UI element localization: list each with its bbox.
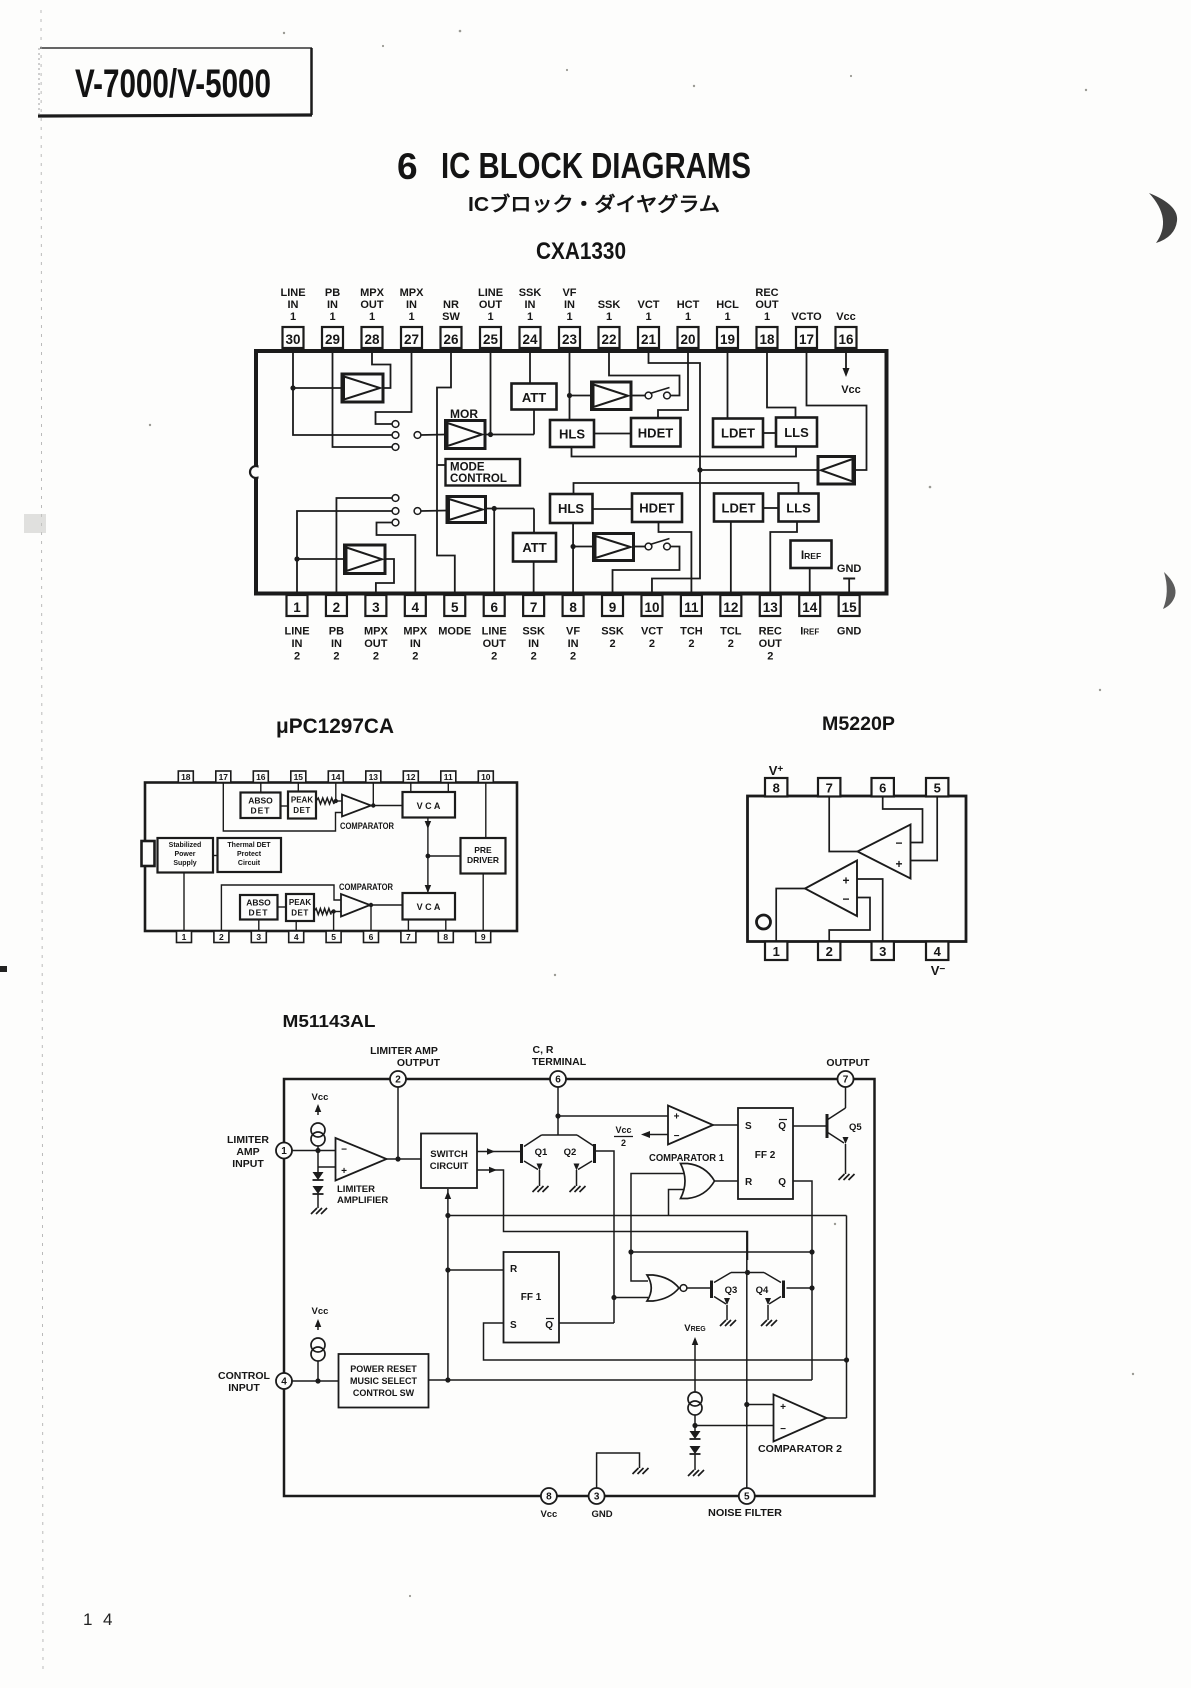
svg-text:3: 3 bbox=[879, 944, 886, 959]
svg-text:8: 8 bbox=[443, 932, 448, 942]
wire ABSO1-PEAK1 bbox=[281, 805, 289, 807]
svg-text:Q3: Q3 bbox=[725, 1285, 738, 1296]
uPC1297CA pin 16 bbox=[253, 771, 268, 783]
amplifier bbox=[594, 534, 634, 561]
edge mark left bbox=[0, 966, 7, 972]
svg-text:−: − bbox=[341, 1145, 347, 1156]
CXA1330 pin 27 (MPX IN 1) bbox=[400, 287, 425, 348]
svg-text:+: + bbox=[341, 1166, 347, 1177]
svg-text:1: 1 bbox=[329, 311, 335, 323]
svg-text:NR: NR bbox=[443, 299, 459, 311]
limiter amplifier triangle bbox=[336, 1138, 387, 1181]
terminal 1 LIMITER AMP INPUT bbox=[276, 1143, 292, 1159]
svg-text:Protect: Protect bbox=[237, 851, 262, 858]
svg-text:19: 19 bbox=[720, 332, 735, 347]
CXA1330 pin 22 (SSK 1) bbox=[598, 299, 621, 348]
svg-text:HCL: HCL bbox=[716, 299, 739, 311]
svg-text:R: R bbox=[510, 1264, 518, 1275]
Vcc arrow pin16 bbox=[841, 351, 861, 396]
svg-text:FF 1: FF 1 bbox=[521, 1292, 542, 1303]
wire switch to MOR amp bbox=[421, 434, 446, 437]
amplifier bbox=[447, 497, 486, 523]
svg-text:1: 1 bbox=[645, 311, 651, 323]
svg-text:OUT: OUT bbox=[755, 299, 779, 311]
CXA1330 pin 8 bbox=[563, 595, 584, 663]
svg-text:MPX: MPX bbox=[364, 626, 389, 638]
M5220P pin 2 bbox=[818, 942, 840, 961]
svg-text:MPX: MPX bbox=[400, 287, 425, 299]
CXA1330 pin 26 (NR SW) bbox=[441, 299, 462, 348]
Stabilized Power Supply box bbox=[158, 838, 214, 873]
wire SPS-Thermal bbox=[213, 855, 218, 857]
svg-text:OUT: OUT bbox=[364, 638, 388, 650]
svg-text:8: 8 bbox=[569, 600, 577, 615]
svg-text:2: 2 bbox=[531, 651, 537, 663]
svg-text:LINE: LINE bbox=[284, 626, 309, 638]
svg-text:HDET: HDET bbox=[638, 426, 673, 441]
svg-text:15: 15 bbox=[842, 600, 858, 615]
POWER RESET MUSIC SELECT CONTROL SW box bbox=[339, 1354, 429, 1408]
svg-text:REC: REC bbox=[755, 287, 778, 299]
svg-text:13: 13 bbox=[763, 600, 779, 615]
CXA1330 pin 10 bbox=[641, 595, 663, 650]
uPC1297CA pin 12 bbox=[403, 771, 418, 783]
svg-text:12: 12 bbox=[406, 772, 416, 782]
svg-text:IN: IN bbox=[564, 299, 575, 311]
svg-text:IN: IN bbox=[406, 299, 417, 311]
svg-text:OUT: OUT bbox=[483, 638, 507, 650]
wire op-amp B inverting input to pin2 bbox=[829, 898, 870, 942]
svg-text:1: 1 bbox=[293, 600, 301, 615]
svg-text:PRE: PRE bbox=[474, 845, 492, 855]
svg-text:12: 12 bbox=[723, 600, 738, 615]
loop wire pin2 comparator2 bbox=[221, 885, 341, 931]
svg-text:M51143AL: M51143AL bbox=[283, 1011, 376, 1031]
COMPARATOR 1 triangle bbox=[668, 1106, 713, 1145]
wire comparator2 out to OR input (h1) bbox=[448, 1215, 847, 1217]
COMPARATOR 2 label bbox=[758, 1444, 842, 1455]
PRE DRIVER box bbox=[461, 838, 506, 874]
svg-text:1: 1 bbox=[369, 311, 375, 323]
svg-text:VCT: VCT bbox=[638, 299, 660, 311]
amplifier bbox=[592, 382, 632, 410]
FF 2 box bbox=[738, 1108, 793, 1199]
svg-text:INPUT: INPUT bbox=[232, 1158, 264, 1170]
svg-text:6: 6 bbox=[879, 781, 886, 796]
VCA box ch2 bbox=[403, 893, 456, 920]
wire SPS to pin1 bbox=[183, 873, 185, 932]
wire HLS1-HDET1 bbox=[594, 433, 631, 435]
wire comparator2 output up bbox=[827, 1216, 847, 1419]
PEAK DET box ch2 bbox=[286, 894, 314, 921]
wire pin5 to comparator2 input bbox=[331, 909, 341, 931]
amplifier bbox=[818, 457, 855, 485]
svg-text:2: 2 bbox=[728, 638, 734, 650]
wire pin2 to switch contact bbox=[336, 498, 392, 595]
svg-text:1: 1 bbox=[83, 1610, 92, 1629]
wire comparator2 out pin6 VCA2 bbox=[369, 903, 403, 931]
terminal 4 CONTROL INPUT bbox=[276, 1373, 292, 1389]
VCA box ch1 bbox=[403, 792, 456, 818]
CXA1330 pin 12 bbox=[720, 595, 742, 650]
svg-text:IN: IN bbox=[288, 299, 299, 311]
svg-text:4: 4 bbox=[934, 944, 942, 959]
CXA1330 pin 18 (REC OUT 1) bbox=[755, 287, 779, 348]
uPC1297CA pin 8 bbox=[438, 931, 453, 943]
ABSO DET box ch2 bbox=[240, 895, 278, 920]
COMPARATOR label ch1 bbox=[340, 821, 394, 831]
svg-text:Stabilized: Stabilized bbox=[169, 842, 202, 849]
svg-text:COMPARATOR: COMPARATOR bbox=[340, 821, 394, 831]
uPC1297CA pin 15 bbox=[291, 771, 306, 783]
wire pin18 to LLS1 top bbox=[767, 351, 796, 418]
svg-text:6: 6 bbox=[555, 1075, 561, 1086]
svg-text:OUT: OUT bbox=[360, 299, 384, 311]
svg-text:23: 23 bbox=[562, 332, 578, 347]
svg-text:OUTPUT: OUTPUT bbox=[397, 1057, 441, 1069]
svg-text:CONTROL: CONTROL bbox=[450, 473, 507, 485]
svg-text:10: 10 bbox=[481, 772, 491, 782]
Vcc/2 reference arrow bbox=[614, 1125, 668, 1148]
uPC1297CA pin 1 bbox=[177, 931, 192, 943]
wire HDET2 to pin11 bbox=[659, 522, 692, 595]
NOR gate bbox=[647, 1275, 687, 1301]
terminal 5 NOISE FILTER bbox=[739, 1488, 755, 1504]
svg-text:+: + bbox=[895, 857, 902, 871]
svg-text:1: 1 bbox=[773, 944, 780, 959]
svg-text:Vcc: Vcc bbox=[312, 1092, 329, 1103]
control input bus terminal4 bbox=[292, 1378, 812, 1383]
CXA1330 pin 16 (Vcc) bbox=[836, 311, 857, 348]
svg-text:ABSO: ABSO bbox=[246, 898, 271, 908]
GND hook terminal3 bbox=[597, 1453, 649, 1488]
CXA1330 pin 28 (MPX OUT 1) bbox=[360, 287, 385, 348]
svg-text:18: 18 bbox=[181, 772, 191, 782]
svg-text:DET: DET bbox=[249, 908, 269, 918]
svg-text:2: 2 bbox=[688, 638, 694, 650]
wire ABSO2-PEAK2 bbox=[278, 906, 287, 908]
svg-text:27: 27 bbox=[404, 332, 419, 347]
scan crescent right lower bbox=[1163, 572, 1176, 609]
svg-text:LLS: LLS bbox=[784, 425, 809, 440]
svg-text:2: 2 bbox=[649, 638, 655, 650]
svg-text:1: 1 bbox=[606, 311, 612, 323]
svg-text:ICブロック・ダイヤグラム: ICブロック・ダイヤグラム bbox=[468, 192, 720, 216]
wire pin8 to amp4 and HLS2 bbox=[570, 523, 593, 595]
svg-text:16: 16 bbox=[256, 772, 266, 782]
svg-text:20: 20 bbox=[680, 332, 695, 347]
LDET box ch1 bbox=[713, 419, 763, 448]
wire pin24 to ATT1 bbox=[529, 351, 531, 384]
wire pin26 NR SW to MODE CONTROL and pin5 bbox=[437, 351, 455, 595]
GND symbol pin15 bbox=[837, 563, 862, 595]
svg-text:Supply: Supply bbox=[173, 860, 196, 867]
svg-text:SSK: SSK bbox=[598, 299, 621, 311]
amplifier bbox=[446, 421, 486, 449]
wire terminal1 to limiter amp bbox=[292, 1151, 336, 1168]
wire Vreg to comparator2 inverting input bbox=[695, 1425, 774, 1427]
CXA1330 pin 25 (LINE OUT 1) bbox=[478, 287, 503, 348]
svg-text:25: 25 bbox=[483, 332, 499, 347]
wire limiter out to switch circuit and terminal2 bbox=[387, 1087, 422, 1162]
ABSO DET box ch1 bbox=[241, 793, 281, 819]
svg-text:IN: IN bbox=[327, 299, 338, 311]
wire OR out to FF2 R bbox=[715, 1180, 739, 1182]
switch circuit bottom control line bbox=[445, 1189, 452, 1383]
svg-text:21: 21 bbox=[641, 332, 657, 347]
wire Q5 collector to terminal7 bbox=[845, 1087, 847, 1108]
svg-text:28: 28 bbox=[364, 332, 380, 347]
svg-text:COMPARATOR: COMPARATOR bbox=[339, 882, 393, 892]
uPC1297CA pin 14 bbox=[328, 771, 343, 783]
HLS box ch1 bbox=[550, 420, 594, 447]
uPC1297CA pin 18 bbox=[178, 771, 193, 783]
svg-text:AMP: AMP bbox=[236, 1146, 259, 1158]
terminal 3 GND bbox=[589, 1488, 605, 1504]
svg-text:ABSO: ABSO bbox=[248, 796, 273, 806]
svg-text:POWER RESET: POWER RESET bbox=[350, 1364, 417, 1374]
HLS box ch2 bbox=[550, 494, 593, 523]
svg-text:Q5: Q5 bbox=[849, 1122, 862, 1133]
uPC1297CA pin 11 bbox=[441, 771, 456, 783]
svg-text:5: 5 bbox=[744, 1492, 750, 1503]
svg-text:FF 2: FF 2 bbox=[755, 1150, 776, 1161]
svg-text:2: 2 bbox=[570, 651, 576, 663]
svg-text:LINE: LINE bbox=[280, 287, 305, 299]
svg-text:VCT: VCT bbox=[641, 626, 663, 638]
switch ch1 SSK bbox=[631, 388, 670, 399]
svg-text:VCTO: VCTO bbox=[791, 311, 822, 323]
svg-text:IN: IN bbox=[528, 638, 539, 650]
wire pin28 to amp1 output bbox=[372, 351, 391, 388]
wire OR top input from bus bbox=[628, 1174, 812, 1282]
svg-text:Q: Q bbox=[778, 1177, 786, 1188]
svg-text:TCH: TCH bbox=[680, 626, 703, 638]
svg-text:1: 1 bbox=[408, 311, 414, 323]
svg-text:2: 2 bbox=[491, 651, 497, 663]
svg-text:Q: Q bbox=[778, 1121, 786, 1132]
svg-text:HLS: HLS bbox=[558, 501, 584, 516]
CXA1330 pin 1 bbox=[284, 595, 309, 663]
page number 14 bbox=[83, 1610, 112, 1629]
CXA1330 pin 30 (LINE IN 1) bbox=[280, 287, 305, 348]
svg-text:7: 7 bbox=[530, 600, 538, 615]
amplifier bbox=[342, 374, 383, 402]
op-amp B (lower, points left) bbox=[805, 861, 857, 917]
wire op-amp B non-inverting input to pin3 bbox=[857, 879, 883, 942]
wire switch to pin22 bbox=[609, 351, 680, 396]
CXA1330 pin 4 bbox=[403, 595, 428, 663]
svg-text:CONTROL SW: CONTROL SW bbox=[353, 1388, 415, 1398]
svg-text:HLS: HLS bbox=[559, 427, 585, 442]
svg-text:TCL: TCL bbox=[720, 626, 742, 638]
wire switch2 to pin9 bbox=[613, 547, 680, 596]
svg-text:8: 8 bbox=[773, 781, 780, 796]
svg-text:1: 1 bbox=[724, 311, 730, 323]
CXA1330 pin 17 (VCTO) bbox=[791, 311, 822, 348]
svg-text:S: S bbox=[745, 1121, 752, 1132]
svg-text:CIRCUIT: CIRCUIT bbox=[430, 1161, 469, 1172]
svg-text:MUSIC SELECT: MUSIC SELECT bbox=[350, 1376, 418, 1386]
svg-text:17: 17 bbox=[799, 332, 814, 347]
FF 1 box bbox=[504, 1252, 560, 1343]
svg-text:DET: DET bbox=[291, 909, 309, 918]
scan fold dotted line left bbox=[41, 10, 43, 1670]
svg-text:MODE: MODE bbox=[450, 462, 485, 474]
svg-text:COMPARATOR 1: COMPARATOR 1 bbox=[649, 1153, 724, 1164]
SWITCH CIRCUIT box bbox=[421, 1134, 477, 1189]
svg-text:NOISE FILTER: NOISE FILTER bbox=[708, 1507, 782, 1519]
svg-text:1: 1 bbox=[527, 311, 533, 323]
svg-text:6: 6 bbox=[397, 146, 418, 187]
svg-text:SW: SW bbox=[442, 311, 460, 323]
wire FF1 Qbar to Q2 base / NOR input bbox=[595, 1151, 649, 1323]
M5220P pin 3 bbox=[872, 942, 894, 961]
CXA1330 pin-1 notch bbox=[250, 463, 267, 481]
svg-text:3: 3 bbox=[372, 600, 380, 615]
svg-text:15: 15 bbox=[294, 772, 304, 782]
M5220P pin 6 bbox=[872, 778, 894, 797]
svg-text:SSK: SSK bbox=[601, 626, 624, 638]
smudge left bbox=[24, 514, 46, 533]
svg-text:1: 1 bbox=[764, 311, 770, 323]
svg-text:IN: IN bbox=[292, 638, 303, 650]
wire pin15 to PEAK1 bbox=[297, 783, 299, 792]
svg-text:LIMITER AMP: LIMITER AMP bbox=[370, 1045, 438, 1057]
svg-text:−: − bbox=[895, 836, 902, 850]
svg-text:V C A: V C A bbox=[417, 801, 441, 811]
svg-text:2: 2 bbox=[373, 651, 379, 663]
svg-text:+: + bbox=[674, 1112, 680, 1123]
wires pins 12,11 to VCA1 bbox=[411, 783, 449, 793]
svg-text:7: 7 bbox=[843, 1075, 849, 1086]
CXA1330 pin 5 bbox=[438, 595, 471, 638]
svg-text:9: 9 bbox=[481, 932, 486, 942]
M51143AL outer box bbox=[284, 1079, 875, 1496]
svg-text:GND: GND bbox=[591, 1509, 612, 1520]
uPC1297CA pin 2 bbox=[214, 931, 229, 943]
CXA1330 pin 23 (VF IN 1) bbox=[559, 287, 580, 348]
switch contacts ch1 input select bbox=[392, 421, 421, 451]
svg-text:CONTROL: CONTROL bbox=[218, 1370, 270, 1382]
svg-text:14: 14 bbox=[802, 600, 818, 615]
wire op-amp B output to pin1 bbox=[776, 889, 805, 942]
svg-text:DET: DET bbox=[251, 806, 271, 816]
svg-text:OUT: OUT bbox=[759, 638, 783, 650]
uPC1297CA pin 4 bbox=[289, 931, 304, 943]
svg-text:Q2: Q2 bbox=[564, 1147, 577, 1158]
svg-text:SSK: SSK bbox=[519, 287, 542, 299]
svg-text:3: 3 bbox=[256, 932, 261, 942]
svg-text:22: 22 bbox=[601, 332, 616, 347]
scan specks bbox=[149, 30, 1134, 1597]
svg-text:LDET: LDET bbox=[721, 426, 755, 441]
model name box V-7000/V-5000 bbox=[38, 48, 312, 116]
svg-text:18: 18 bbox=[759, 332, 775, 347]
HDET box ch1 bbox=[631, 418, 681, 447]
CXA1330 pin 11 bbox=[680, 595, 703, 650]
svg-text:IN: IN bbox=[525, 299, 536, 311]
terminal 8 Vcc bbox=[541, 1488, 557, 1504]
M5220P pin 5 bbox=[926, 778, 948, 797]
wire OR bottom input from comparator2 bbox=[669, 1190, 685, 1216]
terminal 7 OUTPUT bbox=[838, 1071, 854, 1087]
wire pin20 to HDET1 bbox=[658, 351, 688, 418]
noise filter line terminal5 bbox=[744, 1232, 773, 1489]
wire HLS2-HDET2 bbox=[593, 508, 633, 510]
wire comparator1 out pin13 VCA1 bbox=[371, 783, 403, 808]
wire op-amp A output to pin7 bbox=[829, 796, 857, 852]
uPC1297CA pin 9 bbox=[476, 931, 491, 943]
svg-text:−: − bbox=[842, 892, 849, 906]
wire op-amp A inverting input to pin6 bbox=[883, 796, 923, 843]
svg-text:Q1: Q1 bbox=[535, 1147, 548, 1158]
svg-text:Vcc: Vcc bbox=[312, 1306, 329, 1317]
V- label bbox=[931, 963, 946, 978]
ATT box ch1 bbox=[512, 384, 557, 410]
uPC1297CA body bbox=[145, 783, 517, 932]
svg-text:LLS: LLS bbox=[786, 501, 811, 516]
IC M51143AL title bbox=[283, 1011, 376, 1031]
CXA1330 pin 21 (VCT 1) bbox=[638, 299, 660, 348]
LLS box ch1 bbox=[776, 418, 817, 447]
Vcc bias current source input stage bbox=[311, 1092, 328, 1214]
wire NOR out to Q3 base bbox=[687, 1287, 712, 1289]
svg-text:−: − bbox=[674, 1131, 680, 1142]
CXA1330 pin 15 bbox=[837, 595, 862, 638]
svg-text:1: 1 bbox=[487, 311, 493, 323]
svg-text:7: 7 bbox=[826, 781, 833, 796]
COMPARATOR 1 label bbox=[649, 1153, 724, 1164]
svg-text:2: 2 bbox=[395, 1075, 401, 1086]
svg-text:2: 2 bbox=[826, 944, 833, 959]
svg-text:1: 1 bbox=[685, 311, 691, 323]
svg-text:IC BLOCK DIAGRAMS: IC BLOCK DIAGRAMS bbox=[441, 145, 751, 186]
wire pin19 to LDET1 bbox=[727, 351, 729, 419]
svg-text:Vcc: Vcc bbox=[841, 384, 861, 396]
LLS box ch2 bbox=[779, 494, 819, 522]
svg-text:2: 2 bbox=[219, 932, 224, 942]
wire pin14 to comparator1 input bbox=[334, 783, 342, 804]
svg-text:4: 4 bbox=[412, 600, 420, 615]
svg-text:Q4: Q4 bbox=[756, 1285, 769, 1296]
svg-text:30: 30 bbox=[285, 332, 300, 347]
svg-text:Vcc: Vcc bbox=[836, 311, 856, 323]
svg-text:DRIVER: DRIVER bbox=[467, 855, 499, 865]
svg-text:LINE: LINE bbox=[478, 287, 503, 299]
svg-text:1: 1 bbox=[182, 932, 187, 942]
uPC1297CA pin 13 bbox=[366, 771, 381, 783]
CXA1330 pin 29 (PB IN 1) bbox=[322, 287, 343, 348]
Q5 transistor bbox=[793, 1108, 862, 1180]
wire LDET2-LLS2 bbox=[763, 507, 779, 509]
wire MOR2 out / pin6 / ATT2 bbox=[486, 506, 535, 595]
CXA1330 pin 13 bbox=[759, 595, 783, 663]
HDET box ch2 bbox=[632, 494, 682, 523]
svg-text:2: 2 bbox=[621, 1138, 626, 1148]
svg-text:IN: IN bbox=[568, 638, 579, 650]
uPC1297CA pin 6 bbox=[364, 931, 379, 943]
svg-text:MODE: MODE bbox=[438, 626, 471, 638]
svg-text:13: 13 bbox=[369, 772, 379, 782]
svg-text:LINE: LINE bbox=[482, 626, 507, 638]
svg-text:14: 14 bbox=[331, 772, 341, 782]
wire pin1 to amp3 input and switch bbox=[294, 511, 392, 595]
CXA1330 pin 9 bbox=[601, 595, 624, 650]
svg-text:10: 10 bbox=[644, 600, 659, 615]
comparator triangle ch1 bbox=[342, 795, 371, 817]
svg-text:OUT: OUT bbox=[479, 299, 503, 311]
